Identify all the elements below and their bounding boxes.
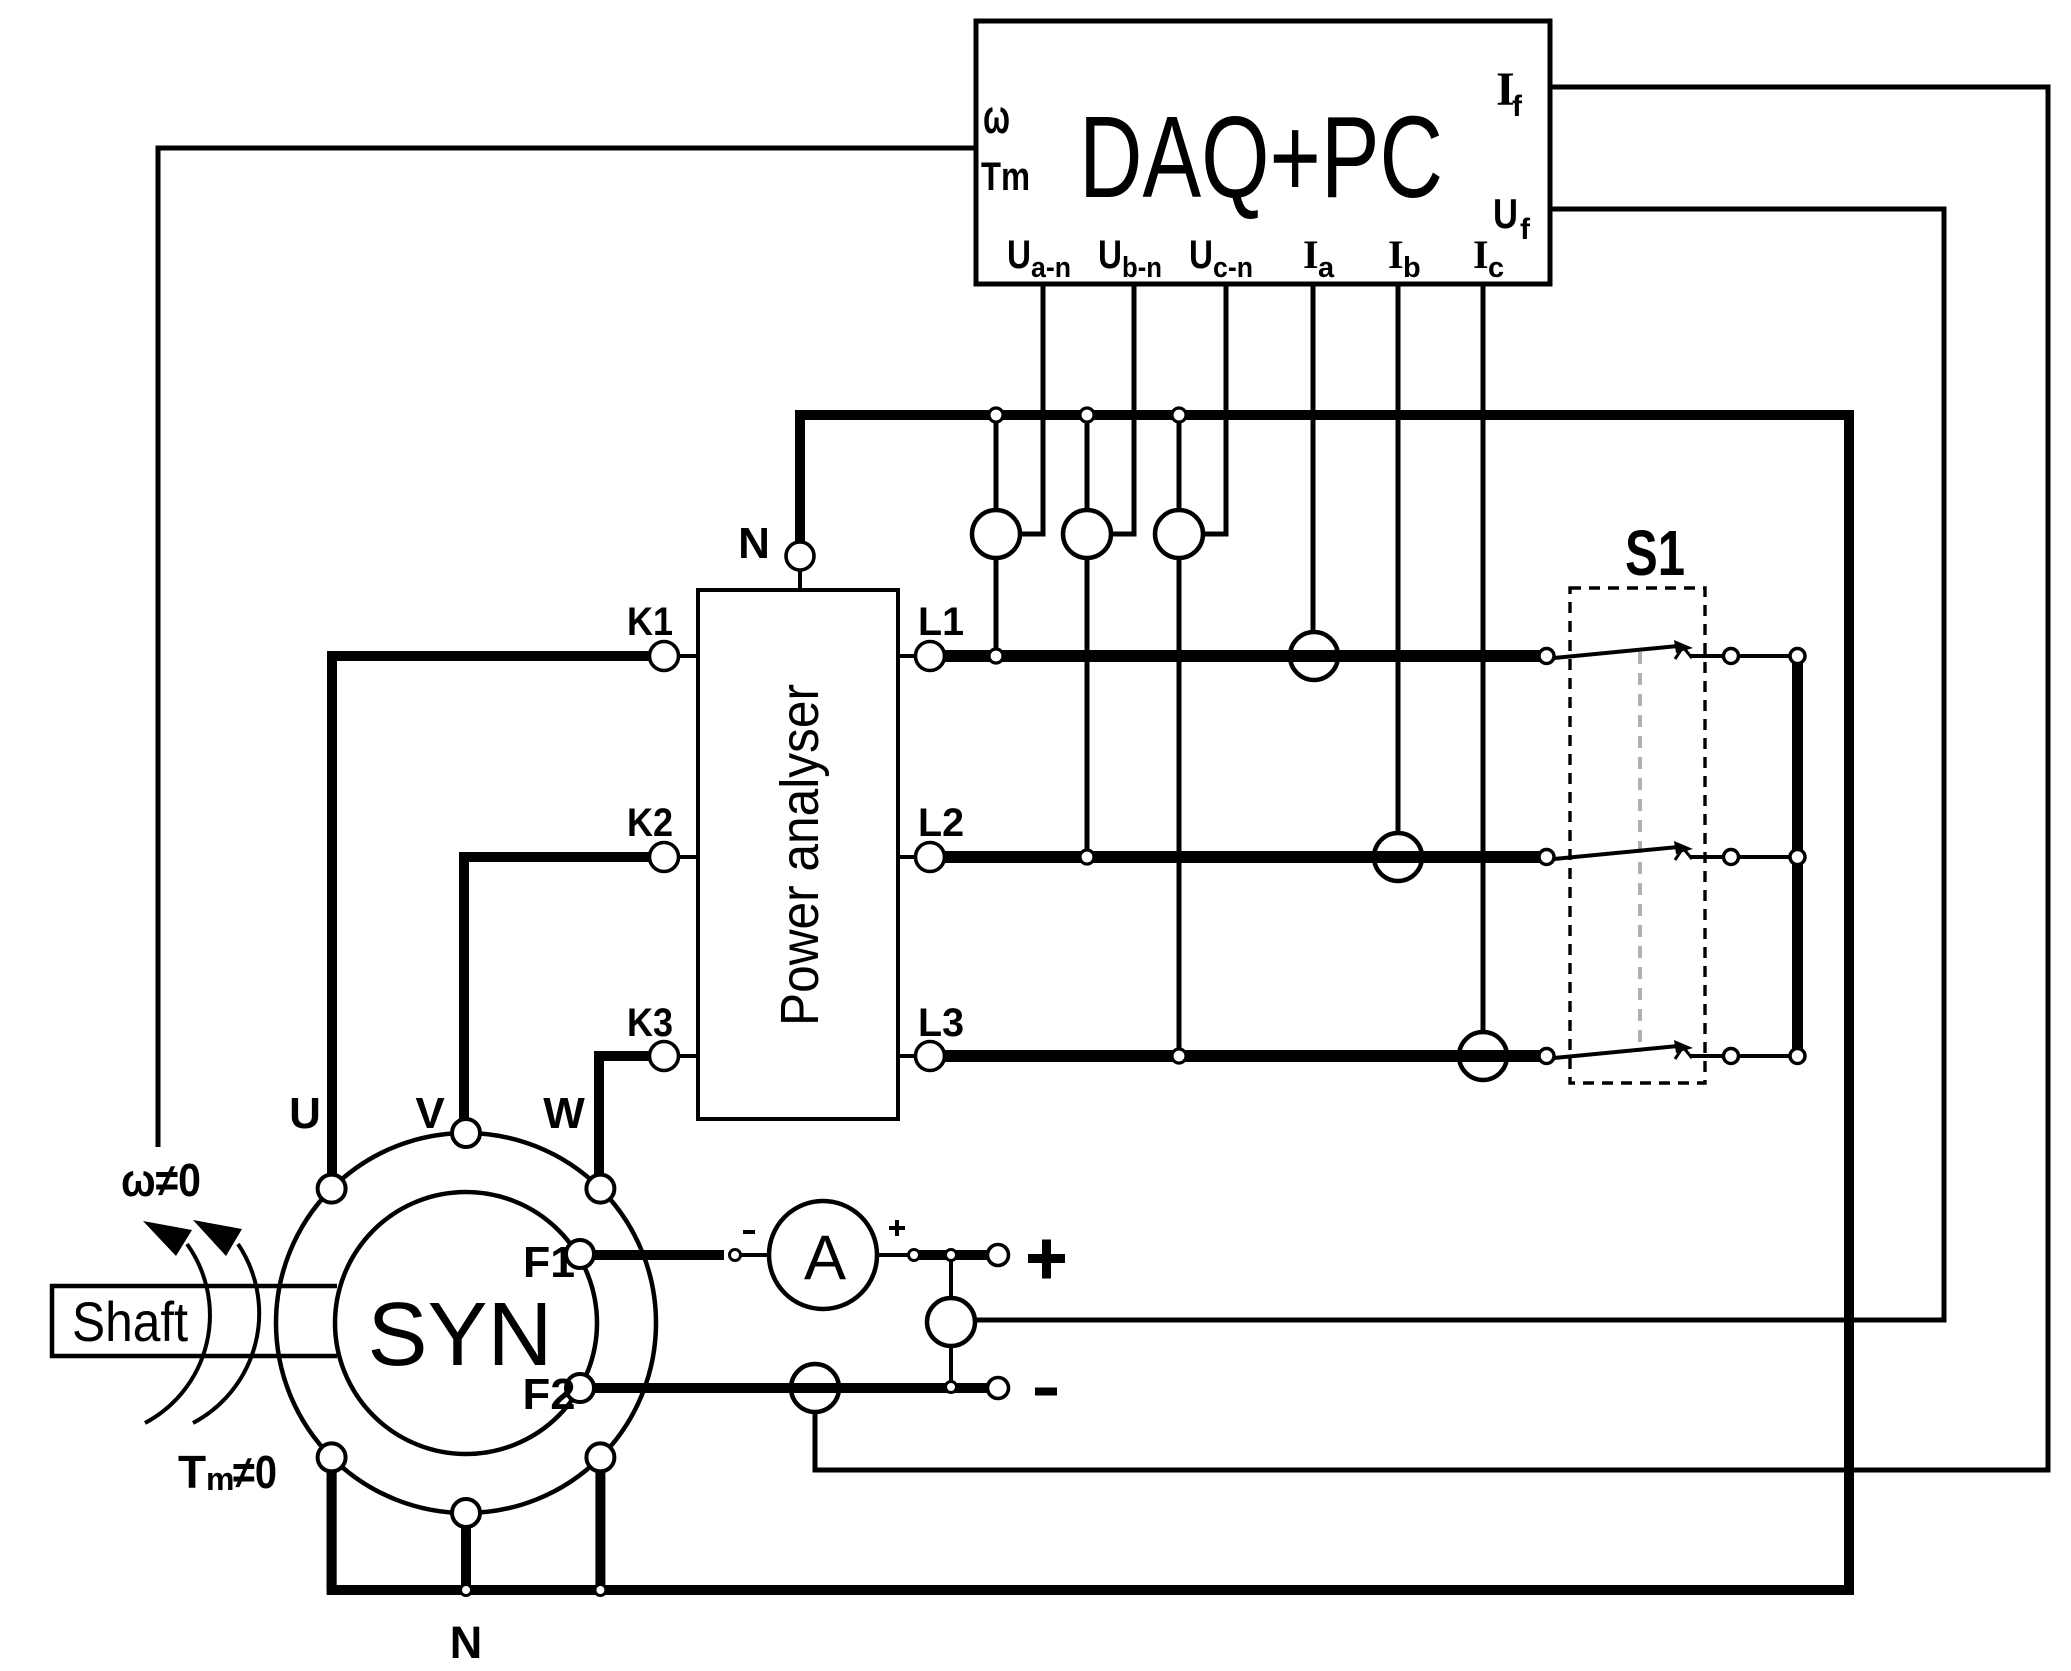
junction Uf tap minus side [946, 1382, 957, 1393]
junction Uf tap plus side [946, 1250, 957, 1261]
switch S1 enclosure (dashed) [1570, 588, 1705, 1083]
node minus terminal [988, 1378, 1009, 1399]
transducer Uf [927, 1298, 975, 1346]
wire VT1 to neutral bus and to L1 [994, 420, 999, 510]
label Ib pin [1388, 232, 1421, 284]
transformer CT3 (Ic) on L3 [1459, 1032, 1507, 1080]
wire K3 from power analyser to W terminal [599, 1056, 650, 1175]
wire If CT drop [813, 1410, 818, 1470]
svg-text:b-n: b-n [1122, 252, 1162, 284]
junction on L2 below VT2 [1080, 850, 1094, 864]
node L3 switch input terminal [1539, 1049, 1554, 1064]
node V terminal [452, 1119, 480, 1147]
wire L1 phase line [944, 650, 1540, 662]
svg-text:b: b [1403, 252, 1421, 284]
wire SYN star point N to neutral bus [461, 1527, 471, 1590]
rotation arrow torque [193, 1244, 259, 1423]
switch pole 2 [1554, 841, 1790, 860]
node F1 circuit junction b [909, 1250, 920, 1261]
label minus big [1035, 1388, 1057, 1396]
wire L2 phase line [944, 851, 1540, 863]
svg-text:N: N [450, 1617, 483, 1668]
wire VT3 to neutral bus and to L3 [1177, 420, 1182, 510]
wire F1 to ammeter [594, 1250, 724, 1260]
wire neutral bus: N terminal up, across top, down right side, along bottom to machine [332, 415, 1849, 1590]
junction on neutral bus above VT1 [989, 408, 1003, 422]
svg-text:a-n: a-n [1031, 252, 1071, 284]
transformer CT1 (Ia) on L1 [1290, 632, 1338, 680]
wire Uf signal: DAQ right to field voltage transducer [975, 209, 1944, 1320]
Power analyser box [698, 590, 898, 1119]
busbar after switch S1 [1792, 656, 1803, 1056]
node L2 terminal [898, 855, 916, 859]
svg-text:S1: S1 [1625, 517, 1685, 589]
node busbar terminal pole2 [1790, 850, 1805, 865]
node SYN bottom-left terminal [318, 1443, 346, 1471]
wire VT2 to neutral bus and to L2 [1085, 420, 1090, 510]
wire DAQ pin Ib down to CT2 [1396, 284, 1401, 834]
label If pin [1496, 63, 1523, 123]
meter ammeter A [769, 1201, 877, 1309]
svg-text:Tm: Tm [981, 155, 1030, 199]
svg-text:V: V [415, 1089, 445, 1138]
wire K1 from power analyser to U terminal [332, 656, 650, 1175]
label plus big [1028, 1254, 1065, 1263]
machine SYN rotor circle [335, 1192, 597, 1454]
node K3 terminal [678, 1054, 698, 1058]
svg-text:DAQ+PC: DAQ+PC [1079, 92, 1443, 222]
node switch pole2 output terminal [1724, 850, 1739, 865]
node busbar terminal pole3 [1790, 1049, 1805, 1064]
node SYN bottom-right terminal [586, 1443, 614, 1471]
svg-text:U: U [1098, 233, 1122, 277]
wire ammeter to plus terminal [876, 1253, 909, 1257]
switch pole 1 [1554, 640, 1790, 659]
wire DAQ pin Ia down to CT1 [1311, 284, 1316, 633]
transformer VT3 (Uc-n) [1155, 510, 1203, 558]
node F1 terminal [566, 1240, 594, 1268]
svg-text:F1: F1 [523, 1238, 575, 1287]
label minus small [743, 1230, 755, 1234]
svg-text:U: U [1189, 233, 1213, 277]
svg-text:I: I [1473, 232, 1489, 277]
svg-text:ω≠0: ω≠0 [121, 1154, 201, 1206]
junction on L3 below VT3 [1172, 1049, 1186, 1063]
wire If signal: DAQ right to field CT [815, 87, 2048, 1470]
svg-text:A: A [804, 1223, 846, 1293]
label Uf pin [1493, 190, 1531, 246]
svg-text:c-n: c-n [1213, 252, 1253, 284]
svg-text:W: W [543, 1089, 585, 1138]
wire F2 to minus terminal [594, 1383, 988, 1393]
node busbar terminal pole1 [1790, 649, 1805, 664]
switch S1 mechanical link (gray dashed) [1638, 652, 1642, 1052]
node switch pole3 output terminal [1724, 1049, 1739, 1064]
node K2 terminal [678, 855, 698, 859]
node L1 switch input terminal [1539, 649, 1554, 664]
svg-text:F2: F2 [523, 1370, 576, 1419]
svg-text:U: U [1493, 190, 1518, 237]
wire SYN bottom-right terminal to neutral bus [595, 1471, 605, 1590]
svg-text:T: T [178, 1446, 206, 1498]
label Tm!=0 [178, 1446, 277, 1498]
wire DAQ pin Ua-n down to VT1 [1020, 284, 1043, 534]
svg-text:c: c [1488, 252, 1504, 284]
DAQ+PC box [976, 21, 1550, 284]
svg-text:L2: L2 [918, 801, 964, 845]
svg-text:≠0: ≠0 [233, 1446, 277, 1498]
node plus terminal [988, 1245, 1009, 1266]
svg-text:K1: K1 [627, 600, 673, 644]
wire SYN bottom-left terminal to neutral bus [327, 1471, 337, 1590]
svg-text:Shaft: Shaft [72, 1290, 188, 1353]
node L2 switch input terminal [1539, 850, 1554, 865]
junction on L1 below VT1 [989, 649, 1003, 663]
transformer CT If on F2 wire [791, 1364, 839, 1412]
wire DAQ pin Ic down to CT3 [1481, 284, 1486, 1033]
junction neutral bus at star point [461, 1585, 472, 1596]
junction neutral bus at bottom-right terminal [595, 1585, 606, 1596]
transformer VT2 (Ub-n) [1063, 510, 1111, 558]
wire DAQ pin Ub-n down to VT2 [1111, 284, 1134, 534]
rotation arrow omega [145, 1244, 210, 1423]
svg-text:L1: L1 [918, 600, 964, 644]
label Ub-n pin [1098, 233, 1162, 284]
label Ic pin [1473, 232, 1504, 284]
node L1 terminal [898, 654, 916, 658]
switch pole 3 [1554, 1040, 1790, 1059]
machine SYN stator circle [276, 1133, 656, 1513]
svg-text:K2: K2 [627, 801, 673, 845]
shaft [52, 1286, 337, 1356]
svg-text:L3: L3 [918, 1001, 964, 1045]
svg-text:I: I [1303, 232, 1319, 277]
svg-text:U: U [289, 1089, 321, 1138]
wire omega/Tm signal from shaft to DAQ [158, 148, 976, 1147]
svg-text:I: I [1388, 232, 1404, 277]
svg-text:f: f [1512, 90, 1523, 123]
svg-text:a: a [1318, 252, 1335, 284]
wire L3 phase line [944, 1050, 1540, 1062]
label Uc-n pin [1189, 233, 1253, 284]
wire Uf transducer vertical taps [949, 1260, 953, 1299]
transformer CT2 (Ib) on L2 [1374, 833, 1422, 881]
node switch pole1 output terminal [1724, 649, 1739, 664]
transformer VT1 (Ua-n) [972, 510, 1020, 558]
svg-text:ω: ω [983, 91, 1010, 144]
node F2 terminal [566, 1374, 594, 1402]
node W terminal [586, 1175, 614, 1203]
node U terminal [318, 1175, 346, 1203]
svg-text:f: f [1520, 213, 1531, 246]
node F1 circuit junction a [730, 1250, 741, 1261]
svg-text:K3: K3 [627, 1001, 673, 1045]
svg-text:N: N [738, 519, 770, 568]
label Ia pin [1303, 232, 1335, 284]
junction on neutral bus above VT2 [1080, 408, 1094, 422]
junction on neutral bus above VT3 [1172, 408, 1186, 422]
svg-text:U: U [1007, 233, 1031, 277]
svg-text:Power analyser: Power analyser [770, 684, 830, 1026]
node SYN star point terminal [452, 1499, 480, 1527]
svg-text:m: m [206, 1461, 234, 1497]
node N terminal of power analyser [798, 570, 802, 590]
node K1 terminal [678, 654, 698, 658]
wire K2 from power analyser to V terminal [464, 857, 650, 1120]
node L3 terminal [898, 1054, 916, 1058]
label Ua-n pin [1007, 233, 1071, 284]
label plus small [889, 1226, 905, 1230]
wire DAQ pin Uc-n down to VT3 [1203, 284, 1226, 534]
